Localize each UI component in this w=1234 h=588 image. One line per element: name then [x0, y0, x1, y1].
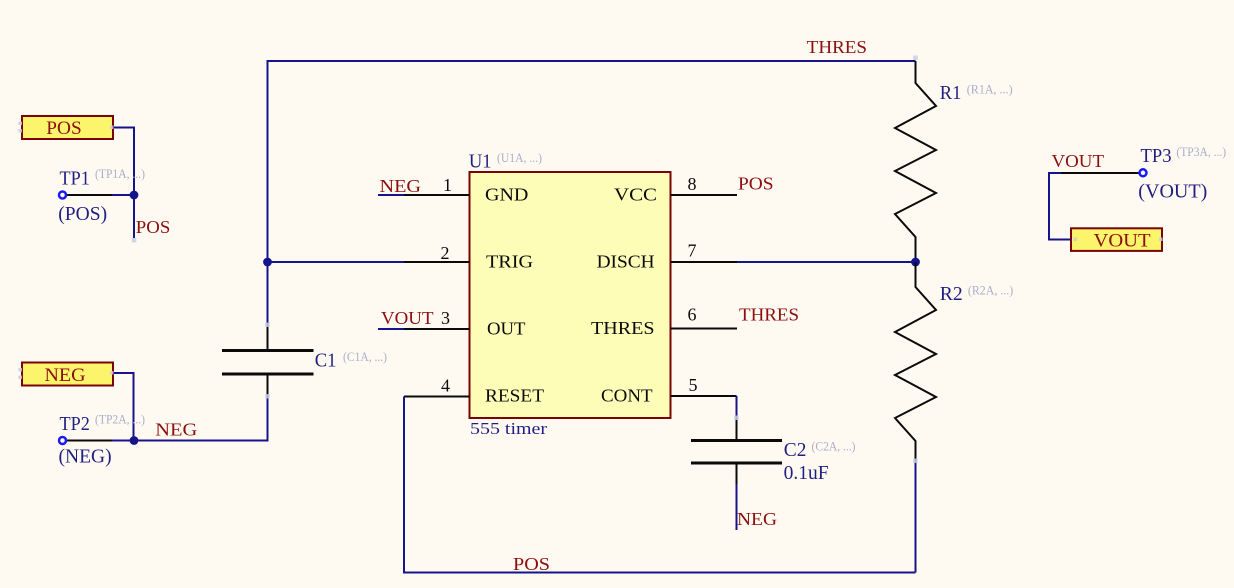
svg-text:(R2A, ...): (R2A, ...): [968, 282, 1013, 297]
label box VOUT: [1071, 228, 1162, 251]
svg-text:GND: GND: [485, 184, 528, 204]
svg-text:NEG: NEG: [380, 176, 422, 196]
svg-text:POS: POS: [46, 119, 81, 139]
svg-text:POS: POS: [738, 174, 774, 194]
svg-text:7: 7: [688, 240, 697, 260]
wire R2 bottom to POS run: [915, 461, 917, 573]
pin 1 GND: [378, 175, 528, 204]
pin 5 CONT: [601, 375, 737, 406]
test point TP3: [1061, 169, 1147, 176]
svg-text:TP3: TP3: [1141, 146, 1172, 167]
svg-text:(TP2A, ...): (TP2A, ...): [95, 412, 145, 427]
svg-text:VCC: VCC: [614, 184, 657, 204]
svg-text:VOUT: VOUT: [1094, 232, 1151, 252]
svg-text:NEG: NEG: [737, 509, 777, 529]
svg-text:DISCH: DISCH: [597, 252, 655, 272]
svg-text:(POS): (POS): [58, 204, 107, 225]
junction TP2: [130, 436, 139, 445]
test point TP1: [59, 192, 134, 199]
svg-text:2: 2: [441, 243, 450, 263]
svg-text:POS: POS: [136, 217, 171, 237]
wire C2 bottom NEG stub: [736, 484, 738, 530]
junction DISCH / R1 / R2: [911, 258, 920, 267]
svg-text:THRES: THRES: [591, 318, 655, 338]
svg-text:(NEG): (NEG): [59, 447, 112, 468]
svg-text:TP1: TP1: [60, 169, 90, 190]
svg-text:(C1A, ...): (C1A, ...): [343, 349, 387, 364]
wire end mark R1 top: [913, 56, 918, 61]
svg-text:C2: C2: [784, 440, 807, 461]
svg-text:(R1A, ...): (R1A, ...): [967, 81, 1013, 96]
wire POS label to TP1 node: [113, 128, 134, 239]
svg-text:NEG: NEG: [155, 419, 197, 439]
wire end mark R2 bottom: [913, 459, 918, 464]
wire TP3 to VOUT label box: [1049, 173, 1071, 240]
svg-text:(TP1A, ...): (TP1A, ...): [95, 166, 145, 181]
wire NEG label to TP2 node: [113, 373, 134, 441]
wire end mark C2 top: [734, 416, 739, 421]
svg-text:TP2: TP2: [60, 414, 90, 435]
wire THRES top net: [268, 60, 916, 62]
svg-text:8: 8: [688, 174, 697, 194]
connection marks VOUT box: [1074, 238, 1163, 242]
svg-text:THRES: THRES: [739, 305, 799, 325]
junction TP1: [130, 191, 139, 200]
svg-text:U1: U1: [469, 152, 492, 173]
wire end mark under POS stub: [132, 238, 137, 243]
resistor R1: [895, 61, 936, 262]
wire end mark C1 bottom: [265, 394, 270, 399]
svg-text:(U1A, ...): (U1A, ...): [497, 150, 542, 165]
svg-text:TRIG: TRIG: [486, 252, 533, 272]
junction at TRIG net: [263, 258, 272, 267]
wire CONT net to C2: [736, 396, 738, 418]
pin 6 THRES: [591, 304, 737, 338]
svg-text:VOUT: VOUT: [1052, 151, 1105, 171]
svg-text:R1: R1: [940, 83, 962, 104]
pin 3 OUT: [378, 308, 526, 339]
svg-text:POS: POS: [513, 554, 550, 574]
svg-text:NEG: NEG: [45, 366, 86, 386]
label box POS: [22, 116, 113, 139]
svg-text:(TP3A, ...): (TP3A, ...): [1176, 144, 1226, 159]
op-amp U1 body: [470, 172, 671, 418]
wire RESET net down-left-bottom POS run: [404, 397, 916, 573]
test point TP2: [59, 437, 134, 444]
wire end mark C1 top: [265, 323, 270, 328]
svg-text:(C2A, ...): (C2A, ...): [812, 438, 856, 453]
svg-text:6: 6: [688, 304, 697, 324]
svg-text:R2: R2: [940, 284, 963, 305]
svg-text:4: 4: [441, 376, 450, 396]
connection marks NEG box: [19, 368, 114, 379]
svg-text:1: 1: [443, 175, 452, 195]
svg-text:CONT: CONT: [601, 386, 653, 406]
svg-text:3: 3: [441, 308, 450, 328]
label box NEG: [22, 363, 113, 386]
wire DISCH net to R junction: [737, 261, 916, 263]
connection marks POS box: [19, 122, 114, 133]
svg-text:(VOUT): (VOUT): [1138, 182, 1207, 203]
svg-text:555 timer: 555 timer: [470, 419, 547, 438]
svg-text:THRES: THRES: [807, 37, 867, 57]
wire left vertical from THRES to C1: [267, 60, 269, 325]
svg-text:RESET: RESET: [485, 386, 544, 406]
svg-text:OUT: OUT: [487, 319, 526, 339]
svg-text:5: 5: [689, 375, 698, 395]
resistor R2: [895, 262, 936, 461]
wire TRIG net horizontal: [268, 261, 405, 263]
pin 4 RESET: [404, 376, 544, 406]
wire C1 bottom to NEG junction: [134, 396, 268, 441]
pin 7 DISCH: [597, 240, 737, 271]
pin 8 VCC: [614, 174, 737, 204]
pin 2 TRIG: [404, 243, 533, 272]
svg-text:0.1uF: 0.1uF: [784, 463, 829, 484]
capacitor C2: [691, 418, 782, 484]
svg-text:VOUT: VOUT: [381, 308, 434, 328]
capacitor C1: [222, 325, 314, 396]
svg-text:C1: C1: [315, 351, 337, 372]
